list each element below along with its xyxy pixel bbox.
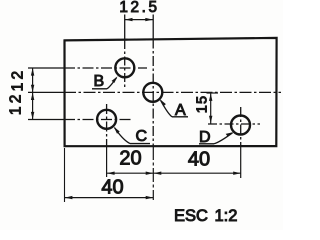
extension line plate left bottom <box>64 148 66 202</box>
dimension 15 arrow up <box>209 93 212 101</box>
label C underline <box>130 143 150 145</box>
label B leader <box>107 78 117 89</box>
svg-text:1:2: 1:2 <box>215 207 238 225</box>
dimension 40 arrow left <box>154 172 162 175</box>
label A leader <box>161 100 173 117</box>
centerline hole D vertical <box>240 107 242 146</box>
label D leader <box>214 133 233 144</box>
svg-text:B: B <box>94 73 105 90</box>
dimension 12 top arrow up <box>31 68 34 76</box>
dimension 12 bottom arrow down <box>31 112 34 120</box>
hole D <box>231 116 250 135</box>
svg-text:15: 15 <box>194 95 210 114</box>
dimension 40 bottom line <box>65 197 154 199</box>
dimension 12 mid arrows <box>31 85 34 93</box>
label C leader <box>115 128 131 144</box>
dimension 40 bottom arrow right <box>146 196 154 199</box>
centerline hole C horizontal <box>28 119 64 121</box>
svg-text:12: 12 <box>9 68 26 92</box>
centerline hole A horizontal <box>28 91 64 93</box>
label C leader arrow <box>114 127 120 134</box>
centerline hole D horizontal <box>208 123 260 125</box>
centerline hole A vertical <box>152 15 154 39</box>
centerline hole B vertical <box>124 15 126 41</box>
hole A <box>143 83 162 102</box>
svg-text:C: C <box>136 128 148 145</box>
dimension 15 line <box>210 93 212 124</box>
centerline hole C vertical <box>106 104 108 146</box>
label B underline <box>92 88 107 90</box>
dimension 15 arrow down <box>209 116 212 124</box>
dimension 20 arrow right <box>146 172 154 175</box>
svg-text:40: 40 <box>101 176 123 198</box>
dimension 12.5 line <box>125 19 153 21</box>
label D underline <box>199 143 214 145</box>
svg-text:40: 40 <box>188 149 210 171</box>
label A underline <box>172 116 188 118</box>
dimension 40 bottom arrow left <box>65 196 73 199</box>
label D leader arrow <box>226 132 234 137</box>
hole B <box>115 58 134 77</box>
hole C <box>97 110 116 129</box>
dimension 20 arrow left <box>107 172 115 175</box>
plate outline <box>65 38 277 146</box>
dimension 12.5 arrow left <box>125 18 133 21</box>
centerline hole B horizontal <box>28 67 64 69</box>
dimension 40 arrow right <box>233 172 241 175</box>
label A leader arrow <box>160 99 166 106</box>
svg-text:12: 12 <box>7 91 24 115</box>
dimension 12/12 line left <box>32 68 34 121</box>
dimension 12.5 arrow right <box>145 18 153 21</box>
svg-text:12.5: 12.5 <box>119 0 159 16</box>
label B leader arrow <box>112 76 118 83</box>
dimension 20/40 shared line <box>107 172 241 174</box>
svg-text:20: 20 <box>119 148 141 170</box>
svg-text:ESC: ESC <box>174 207 208 225</box>
dimension 15 top tick <box>207 92 219 94</box>
